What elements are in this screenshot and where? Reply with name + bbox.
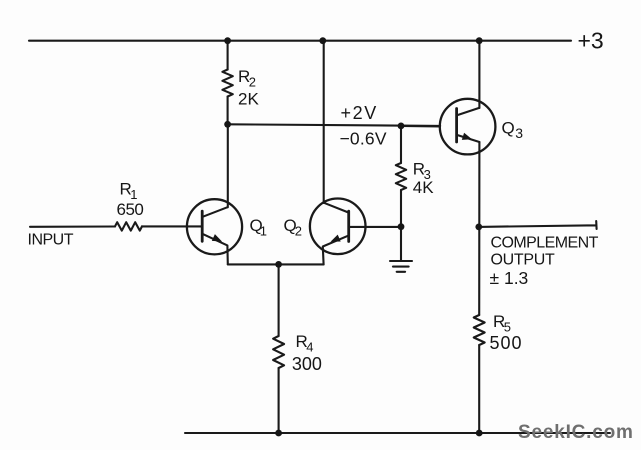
svg-text:OUTPUT: OUTPUT (491, 252, 556, 269)
svg-text:4K: 4K (413, 178, 434, 197)
svg-text:300: 300 (292, 354, 322, 374)
svg-text:+3: +3 (578, 28, 604, 54)
svg-text:± 1.3: ± 1.3 (490, 268, 529, 288)
svg-text:650: 650 (117, 200, 144, 219)
svg-text:2K: 2K (238, 89, 259, 108)
svg-text:INPUT: INPUT (28, 231, 74, 248)
svg-text:+2V: +2V (341, 103, 378, 123)
svg-text:−0.6V: −0.6V (340, 128, 387, 148)
svg-text:500: 500 (490, 333, 523, 353)
svg-text:SeekIC.com: SeekIC.com (518, 422, 634, 443)
svg-text:COMPLEMENT: COMPLEMENT (491, 235, 599, 252)
